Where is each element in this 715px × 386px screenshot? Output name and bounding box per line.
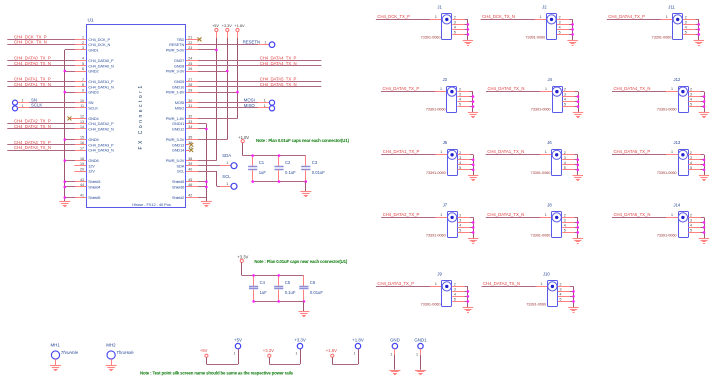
svg-text:5: 5	[564, 103, 566, 107]
svg-text:CH4_DATA2_P: CH4_DATA2_P	[88, 121, 114, 126]
svg-text:2: 2	[690, 151, 692, 155]
ground J9	[463, 307, 473, 309]
wire J8 gnd	[577, 217, 579, 238]
svg-text:44: 44	[80, 183, 84, 187]
svg-text:CH4_DATA4_TX_P: CH4_DATA4_TX_P	[608, 14, 645, 19]
svg-text:PWR_3-3V: PWR_3-3V	[166, 137, 185, 142]
svg-text:CH4_DCK_TX_N: CH4_DCK_TX_N	[482, 14, 515, 19]
svg-text:0.1uF: 0.1uF	[285, 170, 296, 175]
svg-text:42: 42	[188, 194, 192, 198]
svg-text:1: 1	[440, 213, 442, 217]
wire left GND bus	[64, 50, 66, 199]
svg-text:CH4_DATA0_TX_P: CH4_DATA0_TX_P	[14, 55, 51, 60]
U1 pin 45 Shield5	[186, 181, 198, 183]
U1 pin 41 Shield5	[74, 197, 86, 199]
capacitor C6 0.01uF	[303, 275, 305, 286]
U1 pin 24 GND7	[186, 60, 198, 62]
svg-text:2: 2	[685, 15, 687, 19]
wire net CH4_DATA4_TX_N	[198, 65, 321, 67]
wire net CH4_DATA1_TX_N	[7, 86, 75, 88]
svg-text:+1.8V: +1.8V	[352, 337, 364, 342]
svg-text:4: 4	[82, 57, 84, 61]
svg-text:3: 3	[559, 20, 561, 24]
ground J3	[468, 112, 478, 114]
U1 pin 17 CH4_DATA3_N	[74, 150, 86, 152]
no-connect X pin12	[70, 118, 75, 120]
svg-text:CH4_DATA2_TX_P: CH4_DATA2_TX_P	[383, 212, 420, 217]
U1 pin 43 Shield3	[74, 181, 86, 183]
U1 pin 39 SDA	[186, 165, 198, 167]
svg-text:3: 3	[560, 287, 562, 291]
svg-text:+3.3V: +3.3V	[237, 255, 248, 260]
U1 pin 33 GND11	[186, 123, 198, 125]
wire J4 gnd	[578, 92, 580, 113]
svg-text:CH4_DATA4_TX_N: CH4_DATA4_TX_N	[260, 61, 297, 66]
svg-text:1: 1	[671, 87, 673, 91]
svg-text:CH4_DCK_TX_P: CH4_DCK_TX_P	[14, 34, 47, 39]
J1 pin 2	[452, 19, 464, 21]
wire pin26 to +3.3V	[198, 71, 227, 73]
svg-text:27: 27	[188, 78, 192, 82]
ground J13	[699, 175, 709, 177]
U1 pin 6 GND2	[74, 71, 86, 73]
J5 pin 5	[458, 169, 470, 171]
svg-text:11: 11	[80, 104, 84, 108]
ground J2	[567, 40, 577, 42]
U1 pin 15 GND5	[74, 139, 86, 141]
svg-text:45: 45	[188, 178, 192, 182]
svg-text:73391-0060: 73391-0060	[426, 170, 447, 175]
U1 pin 18 GND6	[74, 160, 86, 162]
capacitor C5 0.1uF	[278, 275, 280, 286]
U1 pin 20 12V	[74, 171, 86, 173]
svg-text:1: 1	[540, 15, 542, 19]
svg-text:2: 2	[459, 213, 461, 217]
ground J14	[699, 238, 709, 240]
svg-text:CH4_DATA1_TX_P: CH4_DATA1_TX_P	[14, 77, 51, 82]
J12 pin 5	[688, 106, 700, 108]
svg-text:CH4_DATA0_N: CH4_DATA0_N	[88, 63, 114, 68]
svg-text:SCL: SCL	[177, 169, 185, 174]
svg-text:39: 39	[188, 162, 192, 166]
svg-text:73391-0060: 73391-0060	[657, 170, 678, 175]
svg-text:RESETN: RESETN	[243, 39, 260, 44]
J1 pin 5	[452, 34, 464, 36]
svg-text:1: 1	[545, 150, 547, 154]
ground J12	[699, 112, 709, 114]
svg-text:73391-0060: 73391-0060	[657, 107, 678, 112]
no-connect X pin37	[189, 148, 193, 152]
wire J14 gnd	[704, 217, 706, 238]
svg-text:5: 5	[690, 103, 692, 107]
svg-text:GND7: GND7	[174, 58, 184, 63]
svg-text:C1: C1	[259, 160, 265, 165]
J14 pin 2	[688, 217, 700, 219]
U1 pin 9 GND3	[74, 92, 86, 94]
svg-text:MOSI: MOSI	[244, 97, 255, 102]
svg-text:CH4_DATA5_TX_P: CH4_DATA5_TX_P	[260, 77, 297, 82]
svg-text:4: 4	[454, 292, 456, 296]
U1 pin 38 PWR_5-0V	[186, 160, 198, 162]
svg-text:31: 31	[188, 104, 192, 108]
svg-text:ThruHole: ThruHole	[61, 350, 79, 355]
U1 pin 8 CH4_DATA1_N	[74, 86, 86, 88]
svg-text:7: 7	[82, 78, 84, 82]
J10 pin 5	[558, 301, 570, 303]
wire J6 gnd	[577, 155, 579, 176]
U1 pin 3 GND1	[74, 49, 86, 51]
J9 pin 5	[452, 301, 464, 303]
svg-text:PWR_3-3V: PWR_3-3V	[166, 69, 185, 74]
svg-text:Shield4: Shield4	[88, 184, 101, 189]
svg-text:43: 43	[80, 178, 84, 182]
svg-text:40: 40	[188, 167, 192, 171]
J4 pin 5	[562, 106, 574, 108]
svg-text:8: 8	[82, 83, 84, 87]
svg-text:J13: J13	[674, 140, 681, 145]
svg-text:4: 4	[559, 25, 561, 29]
svg-text:SN: SN	[31, 97, 37, 102]
svg-text:9: 9	[82, 88, 84, 92]
svg-text:ThruHole: ThruHole	[116, 350, 134, 355]
J2 pin 5	[557, 34, 569, 36]
U1 pin 12 GND4	[74, 118, 86, 120]
port SCLK	[13, 106, 18, 111]
capacitor C4 1uF	[253, 275, 255, 286]
wire cap rail	[241, 263, 243, 276]
svg-text:1: 1	[541, 282, 543, 286]
svg-text:18: 18	[80, 157, 84, 161]
capacitor C1 1uF	[252, 156, 254, 167]
J8 pin 4	[562, 227, 574, 229]
svg-text:CH4_DATA3_TX_N: CH4_DATA3_TX_N	[483, 281, 520, 286]
ground J7	[468, 238, 478, 240]
J8 pin 2	[562, 217, 574, 219]
svg-text:1uF: 1uF	[260, 290, 268, 295]
svg-text:4: 4	[690, 161, 692, 165]
J9 pin 3	[452, 291, 464, 293]
svg-text:Shield6: Shield6	[172, 184, 184, 189]
wire pin23 to +5V	[198, 49, 216, 51]
port RESETN	[269, 42, 275, 48]
svg-text:Shield2: Shield2	[172, 195, 184, 200]
U1 pin 27 GND9	[186, 81, 198, 83]
svg-text:3: 3	[564, 156, 566, 160]
svg-text:14: 14	[80, 125, 84, 129]
U1 pin 13 CH4_DATA2_P	[74, 123, 86, 125]
wire J2 gnd	[572, 19, 574, 40]
svg-text:CH4_DATA0_P: CH4_DATA0_P	[88, 58, 114, 63]
svg-text:2: 2	[459, 88, 461, 92]
J12 pin 4	[688, 101, 700, 103]
J11 pin 4	[683, 29, 695, 31]
svg-text:5: 5	[564, 166, 566, 170]
svg-text:J6: J6	[547, 140, 552, 145]
svg-text:4: 4	[564, 98, 566, 102]
svg-text:6: 6	[82, 67, 84, 71]
ground under U1 left	[64, 199, 66, 201]
svg-text:2: 2	[560, 282, 562, 286]
wire pin29 to +1.8V	[198, 92, 238, 94]
svg-text:33: 33	[188, 120, 192, 124]
svg-text:+3.3V: +3.3V	[263, 348, 274, 353]
J12 pin 3	[688, 96, 700, 98]
port SDA	[231, 163, 237, 169]
wire J7 gnd	[473, 217, 475, 238]
ground J8	[573, 238, 583, 240]
J10 pin 3	[558, 291, 570, 293]
svg-text:J5: J5	[443, 140, 448, 145]
svg-text:4: 4	[564, 223, 566, 227]
J8 pin 3	[562, 222, 574, 224]
wire pin38 to +5V rail	[198, 160, 216, 162]
svg-text:19: 19	[80, 162, 84, 166]
U1 pin 40 SCL	[186, 171, 198, 173]
connector U1 Hirose FX12 40-pos	[87, 25, 186, 208]
svg-text:U1: U1	[88, 18, 94, 24]
svg-text:GND1: GND1	[414, 337, 427, 342]
svg-text:24: 24	[188, 57, 192, 61]
svg-text:5: 5	[690, 166, 692, 170]
J3 pin 5	[457, 106, 469, 108]
svg-text:1: 1	[416, 353, 418, 357]
port MOSI	[269, 100, 274, 105]
svg-text:+5V: +5V	[234, 337, 242, 342]
svg-text:PWR_1-8V: PWR_1-8V	[166, 116, 185, 121]
svg-text:PWR_5-0V: PWR_5-0V	[166, 158, 185, 163]
svg-text:J2: J2	[542, 5, 547, 10]
J8 pin 5	[562, 232, 574, 234]
svg-text:GND3: GND3	[88, 90, 98, 95]
U1 pin 31 MISO	[186, 107, 198, 109]
svg-text:1: 1	[22, 104, 24, 108]
svg-text:C2: C2	[285, 160, 291, 165]
svg-text:MISO: MISO	[244, 103, 256, 108]
J6 pin 5	[562, 169, 574, 171]
svg-text:0.01uF: 0.01uF	[312, 170, 325, 175]
svg-text:2: 2	[454, 282, 456, 286]
U1 pin 46 Shield6	[186, 186, 198, 188]
svg-text:Note : Plan 0.01uF caps near e: Note : Plan 0.01uF caps near each connec…	[254, 259, 347, 264]
svg-text:PWR_5-0V: PWR_5-0V	[166, 47, 185, 52]
wire J12 gnd	[704, 92, 706, 113]
U1 pin 1 CH4_DCK_P	[74, 39, 86, 41]
svg-text:73391-0060: 73391-0060	[657, 232, 678, 237]
J1 pin 4	[452, 29, 464, 31]
svg-text:CH4_DCK_TX_N: CH4_DCK_TX_N	[14, 40, 47, 45]
ground GND1	[415, 370, 426, 372]
svg-text:73391-0060: 73391-0060	[421, 34, 442, 39]
svg-text:GND5: GND5	[88, 137, 98, 142]
svg-text:CH4_DATA3_TX_P: CH4_DATA3_TX_P	[377, 281, 414, 286]
svg-text:CH4_DATA1_P: CH4_DATA1_P	[88, 79, 114, 84]
svg-text:+5V: +5V	[212, 24, 219, 28]
wire	[420, 349, 422, 355]
J13 pin 5	[688, 169, 700, 171]
J11 pin 5	[683, 34, 695, 36]
svg-text:1: 1	[354, 352, 356, 356]
U1 pin 29 PWR_1-8V	[186, 92, 198, 94]
port MISO	[269, 106, 274, 111]
svg-text:GND9: GND9	[174, 79, 184, 84]
wire net CH4_DATA3_TX_P	[7, 144, 75, 146]
svg-text:CH4_DATA0_TX_N: CH4_DATA0_TX_N	[488, 86, 525, 91]
svg-text:1: 1	[545, 87, 547, 91]
svg-text:CH4_DATA0_TX_P: CH4_DATA0_TX_P	[383, 86, 420, 91]
U1 pin 42 Shield2	[186, 197, 198, 199]
svg-text:1: 1	[545, 213, 547, 217]
J3 pin 2	[457, 91, 469, 93]
svg-text:29: 29	[188, 88, 192, 92]
wire net CH4_DATA3_TX_N	[7, 150, 75, 152]
svg-text:4: 4	[459, 98, 461, 102]
svg-text:CH4_DATA3_TX_P: CH4_DATA3_TX_P	[14, 140, 51, 145]
svg-text:1: 1	[296, 352, 298, 356]
U1 pin 44 Shield4	[74, 186, 86, 188]
svg-text:2: 2	[564, 88, 566, 92]
svg-text:+1.8V: +1.8V	[238, 135, 249, 140]
U1 pin 23 PWR_5-0V	[186, 49, 198, 51]
svg-text:GND13: GND13	[172, 142, 184, 147]
J14 pin 3	[688, 222, 700, 224]
svg-text:3: 3	[82, 46, 84, 50]
svg-text:73391-0060: 73391-0060	[426, 232, 447, 237]
U1 pin 30 MOSI	[186, 102, 198, 104]
J6 pin 2	[562, 154, 574, 156]
svg-text:15: 15	[80, 136, 84, 140]
svg-text:3: 3	[459, 93, 461, 97]
svg-text:2: 2	[559, 15, 561, 19]
svg-text:CH4_DATA1_TX_P: CH4_DATA1_TX_P	[383, 149, 420, 154]
wire net CH4_DATA0_TX_P	[7, 60, 75, 62]
svg-text:3: 3	[685, 20, 687, 24]
svg-text:2: 2	[454, 15, 456, 19]
svg-text:4: 4	[690, 223, 692, 227]
J5 pin 3	[458, 159, 470, 161]
svg-text:73391-0060: 73391-0060	[525, 34, 546, 39]
svg-text:35: 35	[188, 136, 192, 140]
svg-text:5: 5	[559, 30, 561, 34]
ground J6	[573, 175, 583, 177]
svg-text:GND14: GND14	[172, 148, 185, 153]
svg-text:5: 5	[459, 166, 461, 170]
svg-text:+3.3V: +3.3V	[294, 337, 306, 342]
J7 pin 2	[458, 217, 470, 219]
svg-text:SCLK: SCLK	[88, 105, 98, 110]
svg-text:Note : Test point silk screen: Note : Test point silk screen name shoul…	[140, 371, 294, 376]
svg-text:TBD: TBD	[177, 37, 185, 42]
J4 pin 2	[562, 91, 574, 93]
svg-text:3: 3	[454, 287, 456, 291]
svg-text:0.01uF: 0.01uF	[310, 290, 323, 295]
wire net CH4_DATA0_TX_N	[486, 91, 542, 93]
svg-text:12: 12	[80, 115, 84, 119]
wire J1 gnd	[467, 19, 469, 40]
wire RESETN to port	[198, 44, 258, 46]
wire net CH4_DCK_TX_P	[376, 19, 432, 21]
ground J5	[468, 175, 478, 177]
svg-text:GND: GND	[390, 337, 400, 342]
svg-text:CH4_DATA5_TX_P: CH4_DATA5_TX_P	[614, 149, 651, 154]
wire net CH4_DCK_TX_N	[481, 19, 537, 21]
U1 pin 5 CH4_DATA0_N	[74, 65, 86, 67]
J13 pin 4	[688, 164, 700, 166]
J2 pin 4	[557, 29, 569, 31]
svg-text:5: 5	[459, 103, 461, 107]
wire MOSI	[198, 102, 258, 104]
svg-text:GND8: GND8	[174, 63, 184, 68]
svg-text:Note : Plan 0.01uF caps near e: Note : Plan 0.01uF caps near each connec…	[256, 138, 349, 143]
svg-text:CH4_DATA3_TX_N: CH4_DATA3_TX_N	[14, 145, 51, 150]
svg-text:3: 3	[690, 218, 692, 222]
svg-text:12V: 12V	[88, 163, 95, 168]
U1 pin 11 SCLK	[74, 107, 86, 109]
svg-text:46: 46	[188, 183, 192, 187]
svg-text:21: 21	[188, 36, 192, 40]
wire net CH4_DATA2_TX_P	[7, 123, 75, 125]
svg-text:1: 1	[390, 353, 392, 357]
wire J11 gnd	[698, 19, 700, 40]
svg-text:12V: 12V	[88, 169, 95, 174]
svg-text:34: 34	[188, 125, 192, 129]
svg-text:3: 3	[459, 156, 461, 160]
svg-text:73391-0060: 73391-0060	[652, 34, 673, 39]
svg-text:32: 32	[188, 115, 192, 119]
J5 pin 4	[458, 164, 470, 166]
svg-text:16: 16	[80, 141, 84, 145]
svg-text:20: 20	[80, 167, 84, 171]
svg-text:5: 5	[454, 297, 456, 301]
svg-text:RESETN: RESETN	[169, 42, 184, 47]
svg-text:CH4_DATA3_N: CH4_DATA3_N	[88, 148, 114, 153]
ground MH1	[50, 365, 61, 367]
J11 pin 3	[683, 24, 695, 26]
J6 pin 4	[562, 164, 574, 166]
svg-text:CH4_DCK_P: CH4_DCK_P	[88, 37, 110, 42]
svg-text:CH4_DATA4_TX_N: CH4_DATA4_TX_N	[614, 86, 651, 91]
svg-text:1: 1	[440, 150, 442, 154]
U1 pin 35 PWR_3-3V	[186, 139, 198, 141]
ground GND	[389, 370, 400, 372]
ground under U1 right	[201, 201, 212, 203]
svg-text:30: 30	[188, 99, 192, 103]
J4 pin 3	[562, 96, 574, 98]
no-connect X pin21 TBD	[198, 39, 199, 41]
svg-text:Shield5: Shield5	[172, 179, 184, 184]
wire net CH4_DATA5_TX_N	[198, 86, 321, 88]
U1 pin 14 CH4_DATA2_N	[74, 128, 86, 130]
U1 pin 32 PWR_1-8V	[186, 118, 198, 120]
svg-text:CH4_DATA2_TX_N: CH4_DATA2_TX_N	[487, 212, 524, 217]
svg-text:Shield5: Shield5	[88, 195, 100, 200]
capacitor C2 0.1uF	[278, 156, 280, 167]
wire cap rail	[242, 143, 244, 156]
J5 pin 2	[458, 154, 470, 156]
svg-text:4: 4	[459, 161, 461, 165]
svg-text:MH2: MH2	[106, 342, 116, 347]
capacitor C3 0.01uF	[305, 156, 307, 167]
svg-text:SDA: SDA	[177, 163, 185, 168]
U1 pin 4 CH4_DATA0_P	[74, 60, 86, 62]
wire net CH4_DATA5_TX_P	[198, 81, 321, 83]
svg-text:1: 1	[671, 150, 673, 154]
svg-text:MH1: MH1	[51, 342, 61, 347]
svg-text:+5V: +5V	[200, 348, 208, 353]
svg-text:C5: C5	[285, 280, 291, 285]
svg-text:C4: C4	[260, 280, 266, 285]
wire right GND bus	[198, 123, 206, 125]
svg-text:73391-0060: 73391-0060	[531, 107, 552, 112]
